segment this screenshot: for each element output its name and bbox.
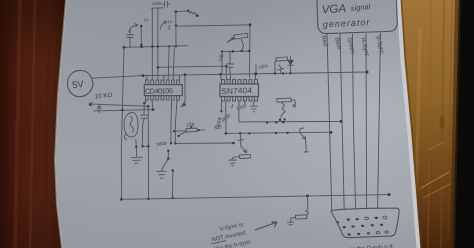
connector J1 VGA shell (331, 208, 399, 237)
resistor R5 box (295, 215, 306, 219)
wire U1 pins 6,7 drops to C5 (171, 100, 177, 124)
resistor R6 10K (173, 122, 205, 136)
wire long vertical pair to U1 (151, 8, 153, 80)
wire left long vertical (121, 47, 124, 199)
wire vertical x176 (175, 12, 177, 46)
wire vertical to bottom bus (147, 106, 149, 199)
svg-text:100n: 100n (152, 1, 163, 6)
diode S1 at line B end (300, 128, 308, 152)
resistor R2 box + diode D1 (275, 57, 293, 73)
wire V-Sync line (378, 33, 381, 209)
svg-text:SN7404: SN7404 (221, 86, 252, 96)
node rail junctions (142, 71, 369, 78)
dark right edge of photo (453, 0, 474, 248)
inductor L1 arc arrow left (129, 25, 138, 32)
wire Red line (327, 33, 332, 211)
ground GND3 (157, 171, 166, 178)
wire U2 pin drops (244, 101, 246, 106)
diode D2 small (277, 65, 283, 73)
ground GND2 (131, 140, 142, 164)
inductor L2 arc arrow right (161, 22, 167, 29)
capacitor C5 300p (171, 124, 175, 143)
wire stub + label 100n (255, 65, 257, 74)
svg-text:5V: 5V (71, 79, 85, 92)
U1 bottom pins (145, 96, 179, 100)
wire H-Sync line (365, 34, 368, 209)
potentiometer P2 mid (227, 33, 248, 51)
U1 top pins (145, 80, 179, 85)
wire stub x169 (168, 26, 170, 30)
title box "VGA signal generator" (316, 0, 397, 34)
resistor R3 box mid-right (277, 98, 296, 123)
wire 5V rail to H-Sync node (92, 72, 368, 78)
capacitor C2 electrolytic left (126, 30, 133, 47)
node bus46 junctions (123, 45, 178, 49)
wire U1 pin2 drop (152, 100, 153, 109)
J1 pins row3 (348, 231, 389, 236)
right wooden table (400, 0, 459, 248)
shadow along left paper edge (55, 0, 66, 248)
switch SW1 (162, 151, 169, 171)
diode S2 (238, 133, 247, 152)
J1 pins row2 (336, 221, 383, 228)
wire line from oscillator column to U2 (158, 66, 226, 80)
capacitor C3 (227, 51, 234, 74)
wire U1 pin1 down (144, 100, 147, 115)
svg-text:CD40106: CD40106 (145, 86, 173, 96)
title text VGA signal (321, 2, 371, 17)
wire line A y123 (239, 101, 341, 122)
5V supply bubble (68, 70, 93, 96)
wire stub x141 (140, 26, 142, 45)
title text generator (323, 17, 371, 29)
wire bottom bus (122, 195, 390, 200)
bright paper edge right (399, 0, 419, 248)
wire top bus y46 (124, 46, 188, 48)
wire U2 pin feeds (221, 74, 255, 80)
J1 pins row1 (347, 216, 388, 221)
capacitor C1 100n top (152, 1, 170, 8)
op-amp U2 SN7404 body (220, 84, 259, 97)
wire annotation arrow beside U1 (181, 75, 185, 107)
wire line X to S2 (175, 142, 233, 144)
wire bus y25 to corner (176, 25, 250, 78)
sheet of paper (55, 0, 420, 248)
resistor R1 zigzag top (176, 10, 188, 13)
ground GND5 under U2 (250, 101, 257, 112)
op-amp U1 CD40106 body (144, 85, 182, 96)
ground GND4 (229, 160, 236, 166)
wire line B y134 (226, 132, 331, 133)
capacitor C6 100n under U2 (223, 101, 230, 133)
wire bottom-right drop (306, 196, 309, 215)
ground GND6 (287, 222, 293, 225)
U2 bottom pins (222, 97, 258, 101)
wire Blue line (340, 34, 344, 210)
wire stub to bottom bus (172, 170, 174, 198)
wire U1 pin feeds (147, 46, 180, 80)
wire stub to rail (221, 52, 223, 75)
wire short bus y50 (222, 50, 249, 53)
svg-text:VGA: VGA (321, 3, 346, 17)
left wooden table (0, 0, 66, 248)
U2 top pins (222, 80, 258, 84)
annotation arrow (256, 222, 277, 230)
resistor R4 box (240, 154, 251, 158)
node scribbled blob (124, 112, 138, 140)
wire Green line (353, 34, 356, 209)
capacitor C4 under pin1 (141, 115, 149, 146)
